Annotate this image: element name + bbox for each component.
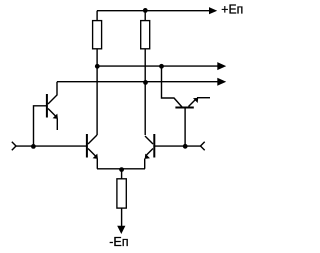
node input terminal right <box>201 142 205 150</box>
node +Ep arrow <box>209 7 217 14</box>
wire input line left <box>16 145 86 147</box>
transistor Q2 base bar <box>175 107 193 109</box>
wire Q1 collector <box>48 82 57 104</box>
wire Q2 collector <box>162 66 183 107</box>
wire R2 bottom lead / Q4 collector vertical <box>144 49 146 135</box>
wire input line right <box>155 145 201 147</box>
resistor R1 <box>93 21 102 49</box>
wire output line 1 <box>97 65 218 67</box>
node junction dot line1/Q2 collector <box>159 64 164 69</box>
node junction dot input left <box>31 144 36 149</box>
node junction dot emitter rail <box>119 167 124 172</box>
wire tail resistor bottom lead <box>121 208 123 226</box>
wire tail resistor top lead <box>121 169 123 179</box>
wire common emitter rail <box>97 168 145 170</box>
node output arrow 1 <box>217 62 226 70</box>
wire Q2 emitter <box>189 100 196 107</box>
wire Q2 base lead <box>184 109 186 147</box>
node junction dot rail/R2 <box>143 8 148 13</box>
node output arrow 2 <box>217 78 226 86</box>
wire +Ep rail <box>97 10 210 12</box>
transistor Q1 base bar <box>46 94 48 118</box>
resistor R3 tail <box>117 179 126 208</box>
svg-text:-Еп: -Еп <box>109 234 128 249</box>
svg-text:+Еп: +Еп <box>221 2 243 17</box>
wire Q3 emitter <box>88 149 96 157</box>
wire Q3 collector <box>88 135 97 144</box>
node input terminal left <box>12 142 16 150</box>
wire Q1 base lead <box>34 106 47 146</box>
wire Q4 collector <box>145 136 153 144</box>
node junction dot line2/R2 <box>143 80 148 85</box>
transistor Q3 base bar <box>86 134 88 158</box>
node -Ep arrow <box>117 226 125 234</box>
wire output line 2 <box>57 81 218 83</box>
wire R1 bottom lead / Q3 collector vertical <box>96 49 98 135</box>
node junction dot input right <box>183 144 188 149</box>
transistor Q4 base bar <box>153 134 155 158</box>
wire R1 top lead <box>96 11 98 21</box>
wire Q1 emitter <box>48 109 56 117</box>
node junction dot line1/R1 <box>95 64 100 69</box>
wire Q4 emitter <box>146 149 153 156</box>
resistor R2 <box>141 21 150 49</box>
wire R2 top lead <box>144 11 146 21</box>
